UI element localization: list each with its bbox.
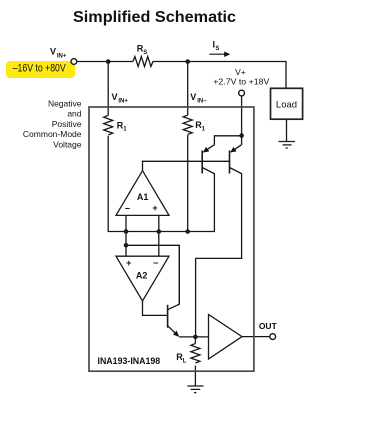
svg-text:IN+: IN+	[118, 99, 128, 105]
svg-text:and: and	[67, 109, 81, 119]
svg-text:L: L	[183, 359, 187, 365]
svg-text:V+: V+	[235, 67, 246, 77]
svg-text:+: +	[126, 258, 131, 268]
svg-text:IN–: IN–	[197, 99, 207, 105]
svg-text:V: V	[190, 92, 196, 102]
svg-text:Common-Mode: Common-Mode	[23, 129, 82, 139]
svg-text:−: −	[125, 203, 130, 213]
svg-text:Voltage: Voltage	[53, 139, 82, 149]
svg-text:Negative: Negative	[48, 98, 82, 108]
svg-text:Positive: Positive	[52, 119, 82, 129]
svg-text:Simplified Schematic: Simplified Schematic	[73, 9, 236, 26]
svg-text:–16V to +80V: –16V to +80V	[13, 63, 67, 75]
svg-text:IN+: IN+	[57, 53, 67, 59]
svg-text:OUT: OUT	[259, 321, 278, 331]
svg-text:+2.7V to +18V: +2.7V to +18V	[213, 77, 269, 87]
svg-text:−: −	[153, 258, 158, 268]
svg-text:A1: A1	[137, 192, 149, 202]
svg-text:1: 1	[202, 126, 206, 132]
svg-text:Load: Load	[276, 100, 297, 111]
svg-text:A2: A2	[136, 270, 148, 280]
svg-text:V: V	[112, 92, 118, 102]
svg-text:V: V	[50, 46, 56, 56]
svg-text:S: S	[215, 46, 219, 52]
svg-text:S: S	[143, 50, 147, 56]
svg-text:+: +	[152, 203, 157, 213]
svg-text:INA193-INA198: INA193-INA198	[98, 356, 161, 367]
svg-text:1: 1	[123, 127, 127, 133]
